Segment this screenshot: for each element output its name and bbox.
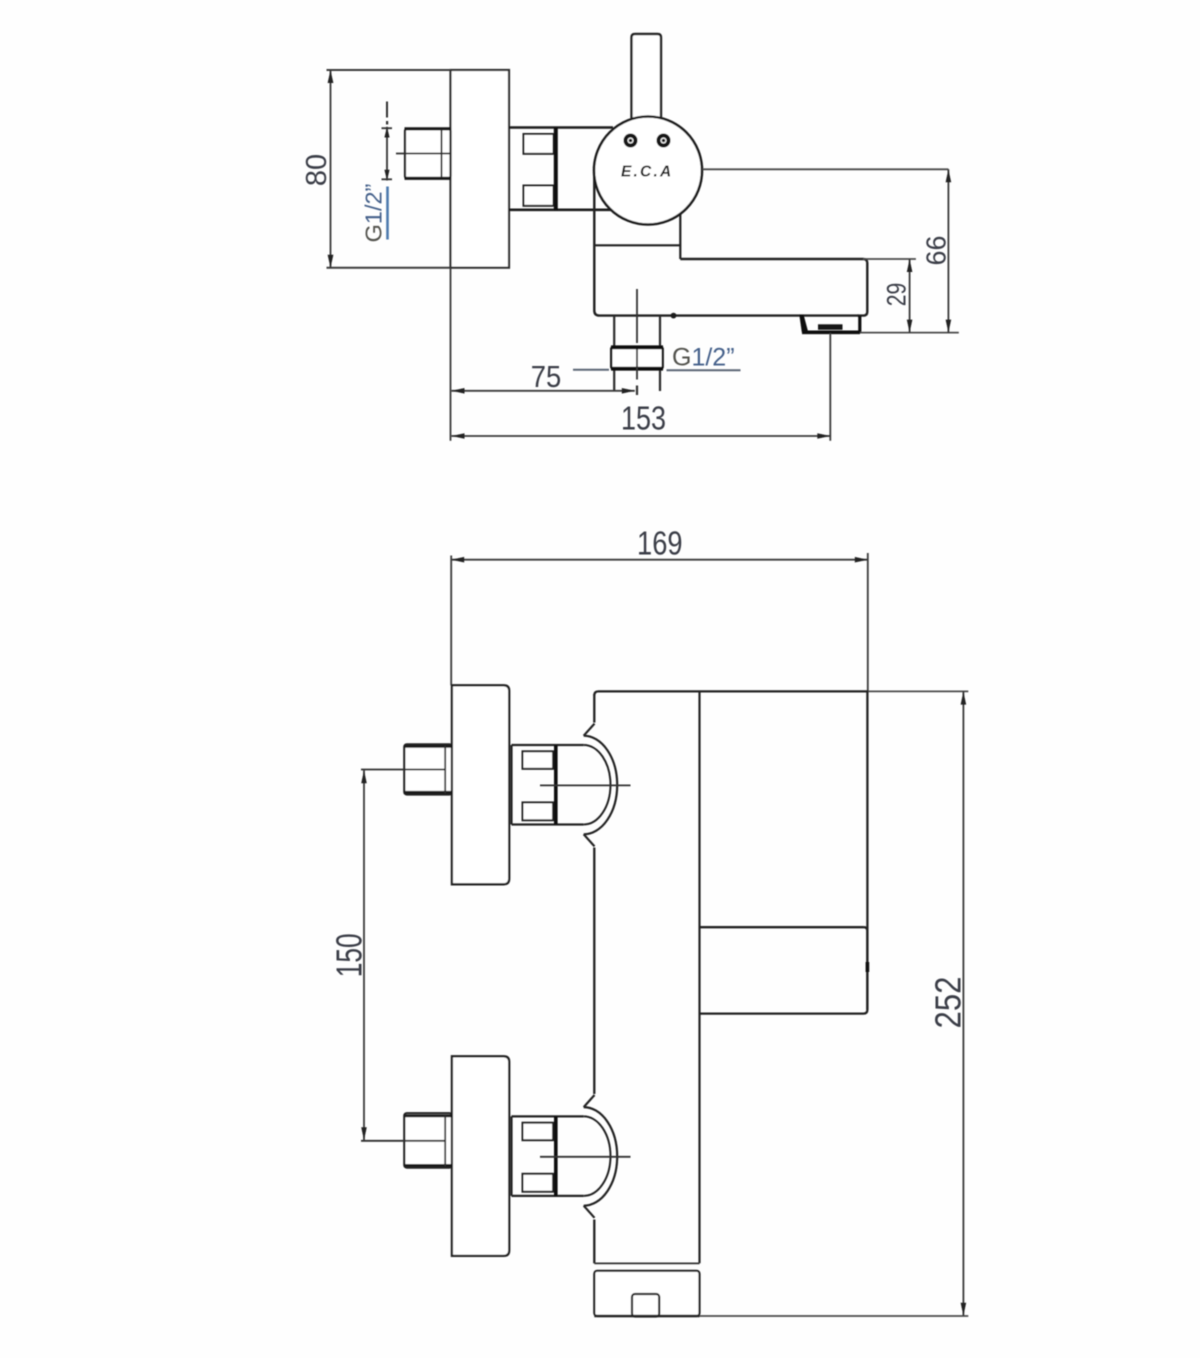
svg-text:153: 153 bbox=[621, 400, 666, 437]
svg-text:252: 252 bbox=[928, 977, 969, 1029]
svg-text:E.C.A: E.C.A bbox=[621, 164, 673, 181]
svg-text:150: 150 bbox=[329, 933, 370, 977]
svg-text:G1/2”: G1/2” bbox=[672, 344, 735, 372]
svg-text:29: 29 bbox=[882, 283, 912, 307]
svg-text:G1/2”: G1/2” bbox=[361, 184, 387, 243]
svg-text:80: 80 bbox=[301, 154, 333, 186]
svg-text:75: 75 bbox=[531, 359, 562, 394]
svg-text:66: 66 bbox=[921, 236, 952, 266]
svg-text:169: 169 bbox=[637, 524, 683, 561]
